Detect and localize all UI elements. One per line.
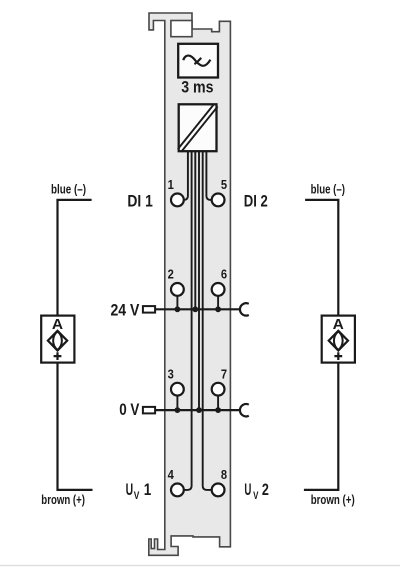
- left sensor diamond: [48, 331, 67, 351]
- page separator line: [0, 565, 400, 567]
- svg-text:brown (+): brown (+): [311, 492, 355, 507]
- svg-text:brown (+): brown (+): [41, 492, 85, 507]
- module body outline: [149, 13, 231, 555]
- svg-text:1: 1: [168, 177, 174, 192]
- svg-text:3 ms: 3 ms: [181, 78, 213, 96]
- 24V jumper contact arc: [240, 303, 249, 315]
- pin 5 circle: [212, 194, 225, 207]
- pin 8 circle: [212, 484, 225, 497]
- 0V rail wire: [155, 409, 241, 411]
- stub pin 6: [217, 295, 219, 309]
- svg-text:1: 1: [144, 480, 152, 499]
- junction dot 0V left: [175, 407, 181, 413]
- svg-text:24 V: 24 V: [111, 300, 140, 319]
- left sensor box: [41, 316, 74, 363]
- svg-text:blue (–): blue (–): [51, 182, 86, 197]
- stub pin 7: [217, 395, 219, 410]
- filter symbol: [183, 56, 210, 66]
- top notch: [171, 21, 192, 37]
- svg-text:V: V: [134, 490, 140, 502]
- svg-text:U: U: [126, 480, 134, 499]
- wire bus line 1 to pin 1: [184, 151, 188, 200]
- isolation diagonal double line: [180, 105, 216, 150]
- svg-text:5: 5: [221, 177, 227, 192]
- svg-text:2: 2: [262, 480, 269, 499]
- filter box: [178, 44, 218, 78]
- svg-text:7: 7: [221, 366, 227, 381]
- stub pin 2: [176, 295, 178, 309]
- svg-text:V: V: [253, 490, 259, 502]
- 0V terminal rect: [143, 407, 155, 414]
- svg-text:blue (–): blue (–): [311, 182, 345, 197]
- svg-text:4: 4: [168, 467, 175, 482]
- wire bus line 5 to pin 8: [203, 151, 212, 490]
- junction dot 24V center: [192, 306, 198, 312]
- svg-text:DI 2: DI 2: [244, 191, 268, 210]
- right sensor circle: [334, 331, 343, 350]
- wire bus line 2 to pin 4: [184, 151, 192, 490]
- junction dot 24V right: [215, 306, 221, 312]
- pin 7 circle: [212, 383, 225, 396]
- svg-text:8: 8: [221, 467, 227, 482]
- 24V terminal rect: [143, 306, 155, 313]
- stub pin 3: [176, 395, 178, 410]
- left sensor plus sign: [54, 352, 62, 360]
- right sensor box: [322, 316, 355, 363]
- svg-text:6: 6: [221, 267, 227, 282]
- wire bus line 3 to 24V rail: [194, 151, 196, 309]
- junction dot 24V left: [175, 306, 181, 312]
- right sensor plus sign: [334, 352, 342, 360]
- svg-text:DI 1: DI 1: [127, 191, 152, 210]
- left sensor bottom wire: [58, 363, 93, 490]
- wire bus line 4 to 0V rail: [198, 151, 200, 410]
- svg-text:U: U: [244, 480, 251, 499]
- right sensor bottom wire: [304, 363, 338, 490]
- 24V rail wire: [155, 308, 241, 310]
- right sensor diamond: [329, 331, 348, 351]
- 0V jumper contact arc: [240, 404, 249, 416]
- left sensor top wire: [58, 200, 92, 316]
- left sensor circle: [53, 331, 62, 350]
- pin 2 circle: [171, 283, 184, 296]
- wire bus line 6 to pin 5: [206, 151, 211, 200]
- pin 4 circle: [171, 484, 184, 497]
- pin 3 circle: [171, 383, 184, 396]
- pin 1 circle: [171, 194, 184, 207]
- isolation box U1: [179, 104, 217, 151]
- right sensor top wire: [305, 200, 338, 316]
- junction dot 0V right: [215, 407, 221, 413]
- svg-text:0 V: 0 V: [119, 400, 140, 419]
- junction dot 0V center: [196, 407, 202, 413]
- svg-text:2: 2: [168, 267, 174, 282]
- pin 6 circle: [212, 283, 225, 296]
- svg-text:3: 3: [168, 366, 174, 381]
